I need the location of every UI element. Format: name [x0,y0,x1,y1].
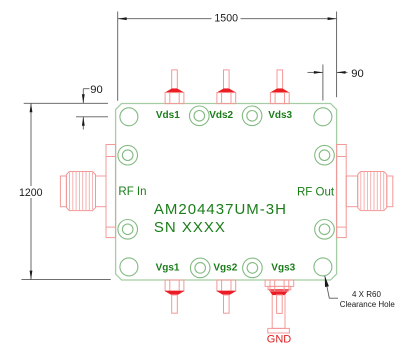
svg-text:Vds3: Vds3 [268,110,292,121]
screw hole right edge bottom [315,220,335,240]
Vds1 feedthrough pin [165,70,184,104]
svg-text:Vgs1: Vgs1 [156,263,180,274]
RF In connector knurl lines [70,172,93,211]
RF In connector interface cap [60,176,66,207]
dimension 90 left arrow down [82,89,85,104]
dimension 1200 extension line top [24,102,108,104]
corner hole top-left [120,108,138,126]
svg-text:RF In: RF In [118,186,146,198]
svg-text:Vds1: Vds1 [156,110,180,121]
corner hole top-right [314,108,332,126]
Vds2 feedthrough pin [217,70,236,104]
dimension 90 left extension line [76,116,108,118]
dimension 90 right arrow pointing right [308,71,323,74]
dimension 90 left arrow up [82,117,85,130]
screw hole left edge bottom [118,220,138,240]
svg-text:AM204437UM-3H: AM204437UM-3H [154,201,287,218]
svg-text:RF Out: RF Out [297,187,335,199]
dimension 1500 line [118,18,337,20]
dimension 90 right arrow pointing left [337,71,348,74]
RF In connector barrel [96,176,107,207]
dimension 90 left tick to text [83,88,89,90]
svg-text:90: 90 [90,84,102,96]
RF Out connector flange [337,145,347,238]
RF Out connector barrel [346,176,358,207]
svg-text:90: 90 [351,68,363,80]
dimension 1500 extension line left [117,12,119,101]
screw hole top edge 1 [190,106,210,126]
GND connector dome [269,290,289,295]
RF Out connector interface cap [387,176,393,207]
RF In connector hex nut [66,172,95,211]
svg-text:Vgs2: Vgs2 [213,263,237,274]
dimension 90 right extension line [322,65,324,101]
dimension 1200 arrowheads [30,103,33,112]
Vgs3 feedthrough pin (through GND connector) [270,280,289,313]
screw hole top edge 2 [242,106,262,126]
screw hole left edge top [118,145,138,165]
leader line to clearance hole [325,276,338,298]
svg-text:Vds2: Vds2 [209,110,233,121]
Vds3 feedthrough pin [270,70,289,104]
module body outline [116,104,337,281]
dimension 1500 arrowheads [118,17,127,20]
svg-text:Vgs3: Vgs3 [271,263,295,274]
RF Out connector hex nut [358,172,387,211]
corner hole bottom-left [120,258,138,276]
svg-text:1200: 1200 [19,187,43,199]
RF Out connector knurl lines [361,172,384,211]
svg-text:GND: GND [267,334,292,346]
svg-text:4 X R60: 4 X R60 [352,290,381,299]
Vgs2 feedthrough pin [217,280,236,313]
dimension 1200 line [30,103,32,279]
svg-text:SN XXXX: SN XXXX [154,219,226,236]
dimension 1500 extension line right [336,12,338,98]
screw hole bottom edge 1 [190,258,210,278]
GND connector body [265,280,294,333]
screw hole bottom edge 2 [243,258,263,278]
corner hole bottom-right (4 X R60 clearance hole) [314,258,332,276]
svg-text:1500: 1500 [214,13,238,25]
svg-text:Clearance Hole: Clearance Hole [340,300,396,309]
dimension 1200 extension line bottom [21,279,110,281]
screw hole right edge top [315,145,335,165]
RF In connector flange [106,145,116,238]
Vgs1 feedthrough pin [165,280,184,313]
